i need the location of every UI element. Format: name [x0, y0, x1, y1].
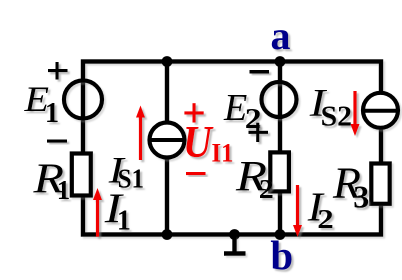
label R1	[32, 157, 70, 206]
junction bottom of IS1 branch	[162, 229, 173, 240]
svg-text:I1: I1	[212, 139, 234, 168]
svg-text:U: U	[183, 116, 214, 167]
current source IS1	[150, 123, 185, 158]
polarity plus of E2	[249, 123, 269, 142]
svg-text:E: E	[223, 87, 247, 129]
label IS2	[309, 82, 352, 133]
current source IS2	[363, 93, 398, 128]
node a junction	[275, 56, 286, 67]
junction top of IS1 branch	[162, 56, 173, 67]
label R2	[235, 154, 274, 205]
polarity plus of UI1 (red)	[184, 103, 203, 122]
voltage source E1	[64, 81, 102, 119]
resistor R3	[371, 164, 389, 204]
svg-text:1: 1	[57, 175, 70, 205]
label I1	[104, 187, 131, 237]
label R3	[332, 159, 369, 215]
wire E2/R2 branch	[278, 62, 282, 235]
svg-text:1: 1	[45, 98, 59, 129]
node a	[271, 13, 291, 58]
label I2	[307, 184, 334, 235]
svg-text:1: 1	[117, 206, 131, 237]
node b junction	[275, 229, 286, 240]
svg-text:3: 3	[353, 179, 369, 215]
label IS1	[108, 151, 145, 194]
polarity plus of E1	[48, 62, 68, 80]
ground	[224, 236, 246, 254]
resistor R1	[72, 154, 91, 196]
current arrow IS1	[136, 106, 145, 161]
node b	[270, 232, 293, 278]
label UI1 (red)	[183, 116, 233, 168]
voltage source E2	[262, 82, 297, 117]
junction at ground	[229, 229, 240, 240]
svg-text:S2: S2	[321, 101, 353, 133]
current arrow I1	[93, 188, 102, 237]
svg-text:b: b	[270, 232, 293, 278]
current arrow I2	[293, 185, 302, 237]
label E2	[223, 87, 262, 135]
label E1	[23, 79, 59, 129]
svg-text:a: a	[271, 13, 291, 58]
polarity minus of E1	[47, 140, 67, 143]
polarity minus of UI1 (red)	[186, 172, 206, 175]
resistor R2	[270, 152, 289, 191]
wire IS1 branch	[165, 62, 169, 235]
svg-text:2: 2	[259, 174, 274, 204]
polarity minus of E2	[250, 70, 270, 74]
svg-text:S1: S1	[118, 164, 145, 194]
svg-text:2: 2	[317, 204, 334, 234]
wire outer loop: top bus, left branch, right branch, bottom bus	[83, 62, 381, 235]
current arrow IS2	[351, 91, 360, 136]
